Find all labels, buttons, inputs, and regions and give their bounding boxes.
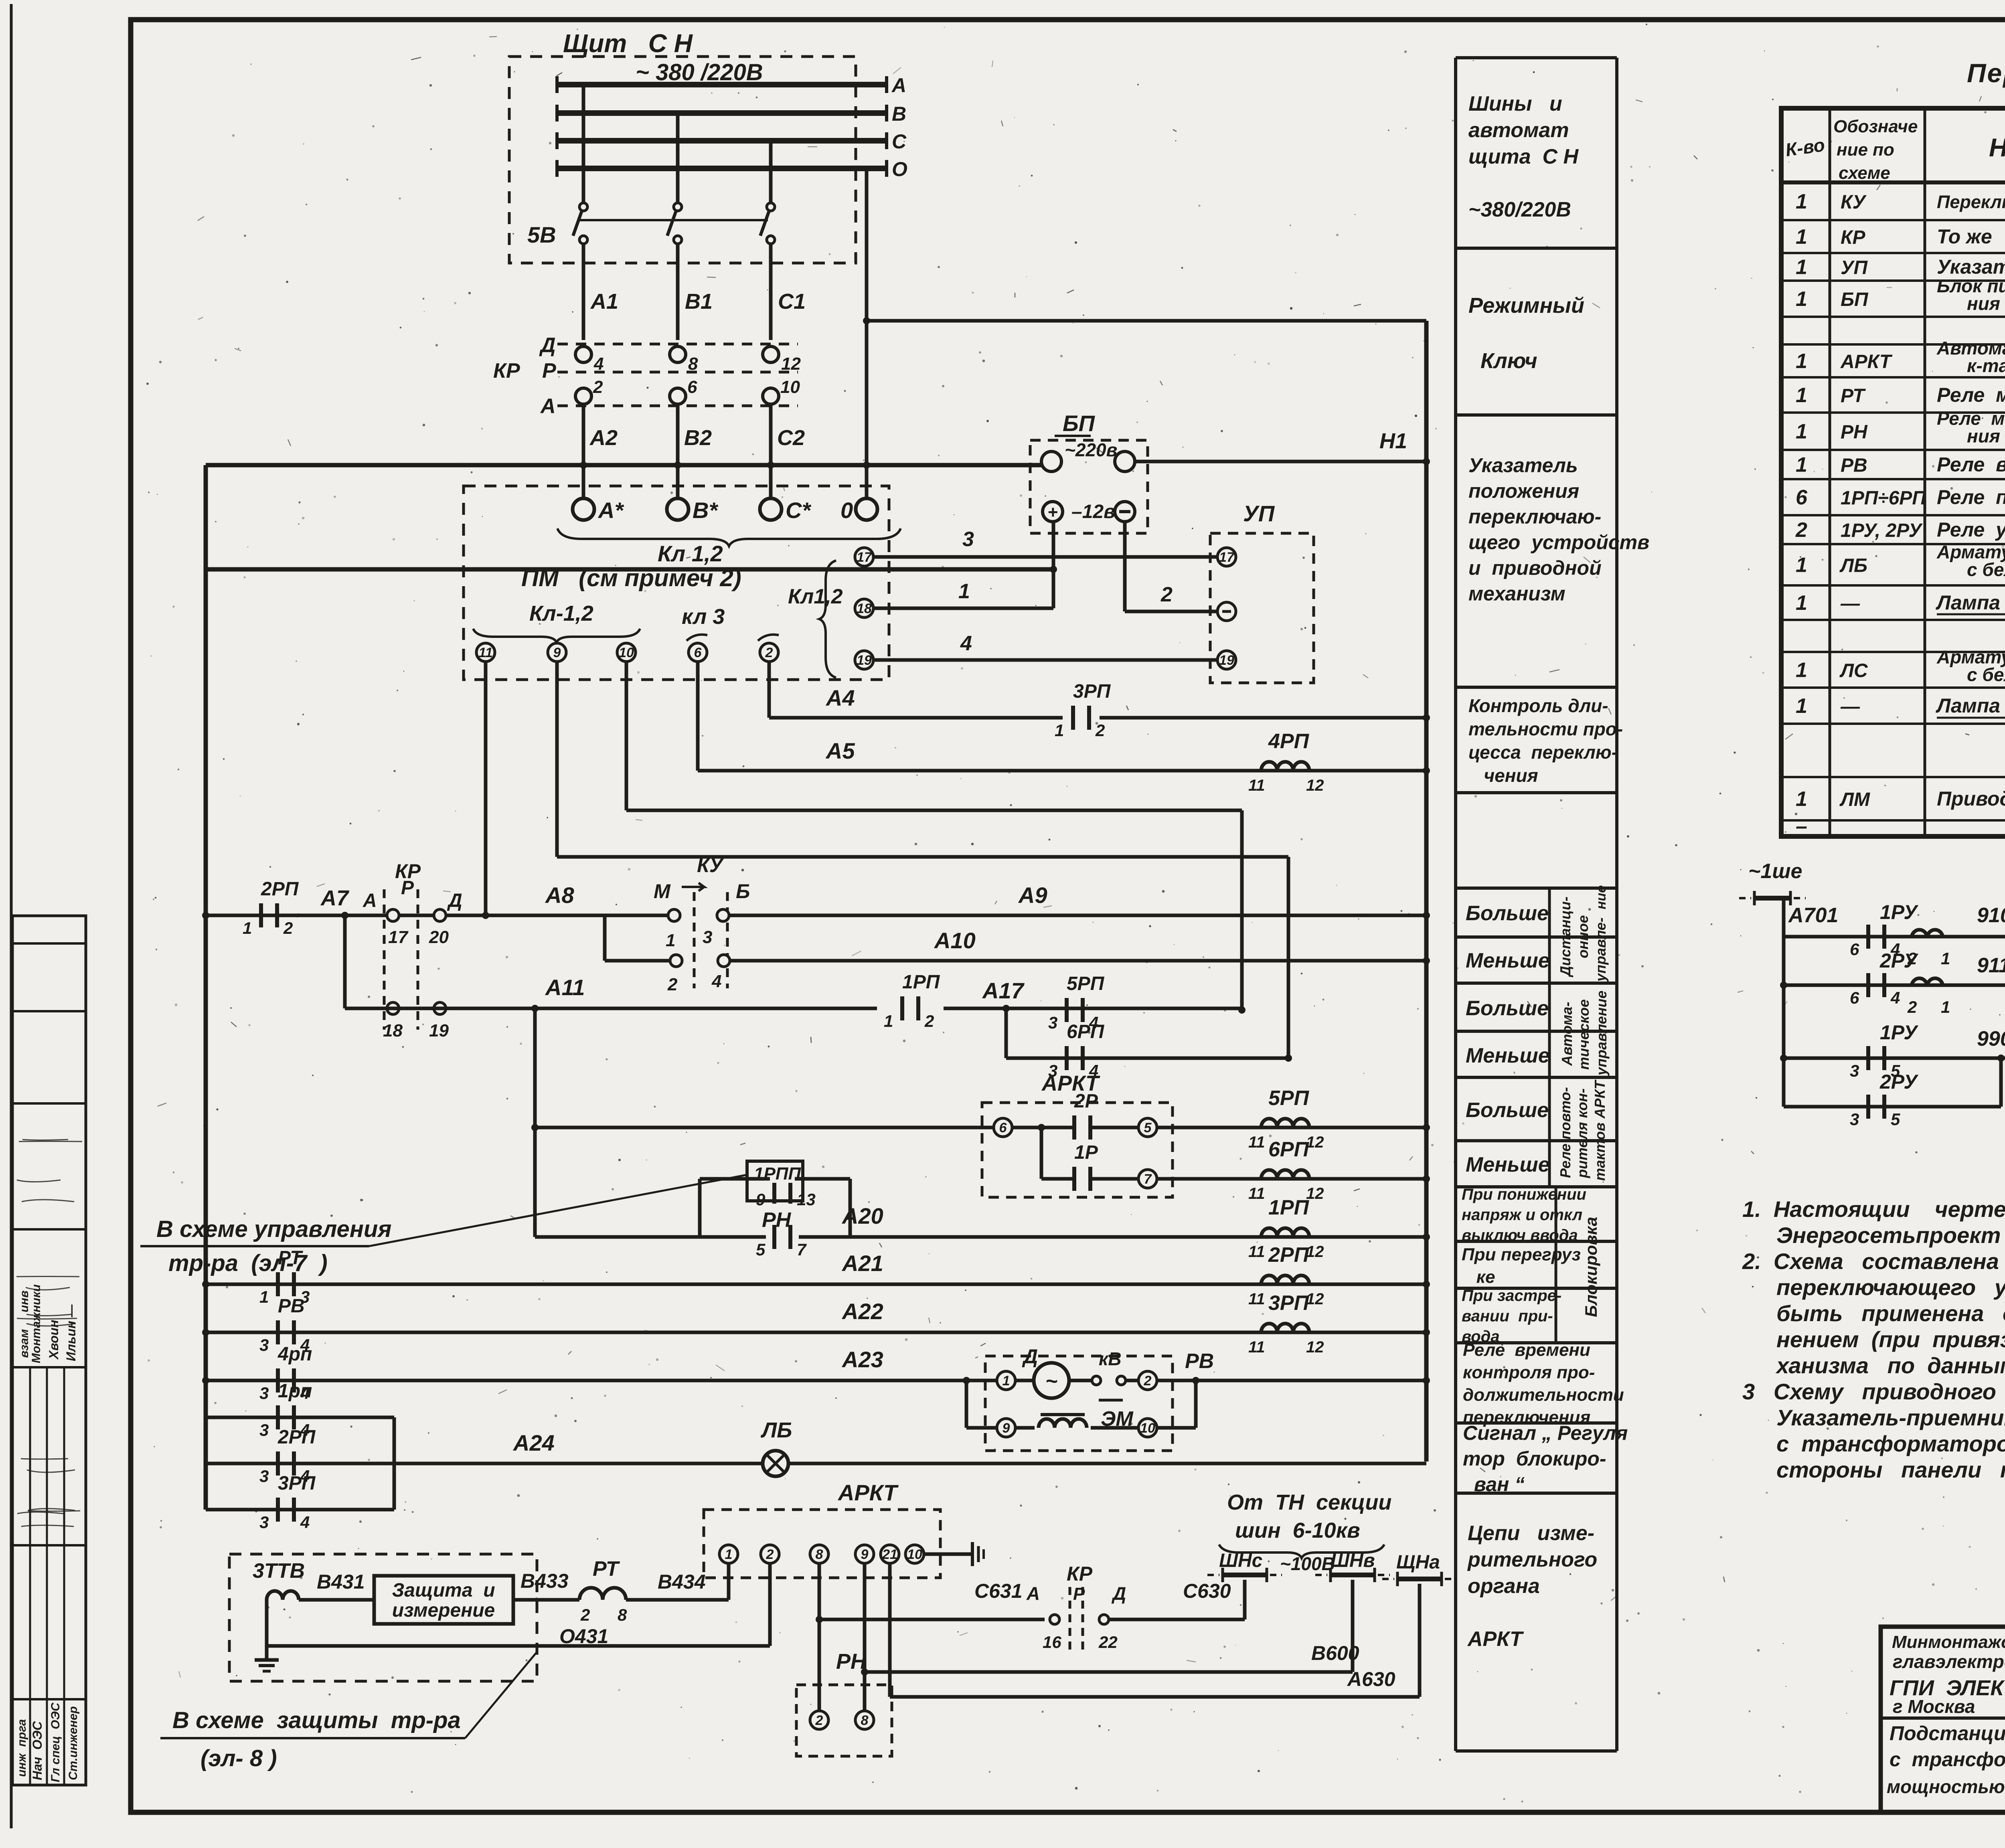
- terminal Д 9: [966, 1426, 997, 1430]
- svg-text:С2: С2: [777, 426, 805, 450]
- breaker 5В pole 2: [674, 203, 682, 211]
- svg-text:10: 10: [907, 1547, 922, 1562]
- svg-text:А10: А10: [934, 928, 976, 953]
- wire А7 to А11 drop: [343, 915, 347, 1008]
- svg-text:11: 11: [1248, 1290, 1265, 1308]
- contact КУ 4: [718, 955, 730, 967]
- svg-text:А23: А23: [841, 1347, 883, 1372]
- svg-text:выключ ввода: выключ ввода: [1462, 1227, 1578, 1244]
- svg-text:главэлектромонтаж: главэлектромонтаж: [1893, 1651, 2005, 1672]
- svg-text:КУ: КУ: [697, 854, 725, 876]
- svg-text:управле-: управле-: [1592, 917, 1609, 982]
- contact 6РП: [1065, 1046, 1069, 1070]
- svg-text:Шины и: Шины и: [1468, 92, 1562, 115]
- contact 3рп: [276, 1498, 280, 1522]
- svg-text:12: 12: [1306, 777, 1324, 794]
- contact 2РУ 6-4: [1866, 973, 1870, 997]
- svg-text:Меньше: Меньше: [1466, 1044, 1550, 1067]
- svg-text:Ильин —: Ильин —: [64, 1304, 78, 1361]
- wire В431: [299, 1598, 374, 1602]
- coil 2РУ: [1912, 978, 1943, 985]
- svg-text:3РП: 3РП: [1073, 681, 1111, 702]
- svg-text:цесса переклю-: цесса переклю-: [1468, 742, 1618, 763]
- line А4: [1100, 716, 1426, 720]
- svg-text:2: 2: [1144, 1373, 1152, 1389]
- wire below breaker pole 1: [582, 244, 585, 340]
- svg-text:2: 2: [593, 377, 603, 397]
- svg-text:12: 12: [1306, 1338, 1324, 1356]
- svg-text:2: 2: [283, 919, 293, 937]
- svg-text:ке: ке: [1462, 1267, 1495, 1287]
- svg-text:КУ: КУ: [1841, 192, 1867, 213]
- svg-text:положения: положения: [1468, 480, 1579, 502]
- svg-text:1РП: 1РП: [1268, 1196, 1310, 1219]
- wire А630: [888, 1563, 892, 1697]
- leg right ЭМ: [1157, 1426, 1196, 1430]
- svg-text:18: 18: [857, 601, 872, 616]
- dashed row Д: [557, 343, 798, 346]
- terminal 19: [855, 651, 873, 669]
- svg-text:РН: РН: [762, 1208, 792, 1232]
- contact Д circle 12: [763, 346, 779, 362]
- terminal plus: [1043, 502, 1063, 522]
- contact КР 19: [434, 1002, 446, 1014]
- svg-text:РВ: РВ: [1185, 1350, 1214, 1373]
- svg-text:3ТТВ: 3ТТВ: [253, 1559, 305, 1583]
- svg-text:А: А: [363, 890, 377, 911]
- svg-text:С631: С631: [974, 1580, 1023, 1602]
- svg-text:2. Схема составлена для: 2. Схема составлена для приводного механ…: [1742, 1249, 2005, 1274]
- line А7-А8-А9: [206, 914, 669, 917]
- svg-text:Д: Д: [539, 334, 556, 357]
- svg-text:2РУ: 2РУ: [1879, 949, 1919, 972]
- terminal 2: [760, 643, 778, 662]
- terminal УП 17: [1217, 548, 1236, 566]
- svg-text:910: 910: [1977, 904, 2005, 927]
- svg-text:2: 2: [580, 1605, 590, 1624]
- line 1рп: [206, 1416, 394, 1419]
- svg-text:Дистанци-: Дистанци-: [1557, 897, 1574, 978]
- svg-text:А17: А17: [982, 978, 1025, 1003]
- svg-text:5: 5: [1144, 1120, 1152, 1136]
- svg-text:КР: КР: [1841, 227, 1866, 248]
- contact КУ 2: [670, 955, 682, 967]
- terminal Д 10: [1138, 1419, 1157, 1437]
- wire А2 to ПМ: [582, 465, 585, 498]
- svg-text:Больше: Больше: [1466, 997, 1549, 1020]
- svg-text:1. Настоящии чертеж выпол: 1. Настоящии чертеж выполнен на основани…: [1742, 1196, 2005, 1222]
- svg-text:А: А: [891, 74, 906, 97]
- wire А11 branch down: [533, 1008, 537, 1237]
- wire from terminal 11: [484, 662, 488, 915]
- svg-text:А5: А5: [825, 738, 855, 763]
- svg-text:1РП÷6РП: 1РП÷6РП: [1841, 488, 1926, 509]
- contact Д circle 8: [670, 346, 686, 362]
- wire 1: [873, 607, 1053, 610]
- svg-text:ния: ния: [1967, 426, 2000, 447]
- svg-text:с белой линзой: с белой линзой: [1967, 559, 2005, 580]
- svg-text:3: 3: [1850, 1061, 1859, 1080]
- wire to 6РП branch: [1005, 1008, 1008, 1058]
- svg-text:А630: А630: [1347, 1668, 1395, 1690]
- contact КР 17: [387, 909, 399, 921]
- line 6РП coil: [1157, 1177, 1426, 1181]
- wire РВ out: [1157, 1379, 1426, 1382]
- line А21: [206, 1283, 1426, 1286]
- svg-text:22: 22: [1098, 1633, 1118, 1652]
- svg-text:А22: А22: [841, 1299, 883, 1324]
- revision stamp table: [12, 916, 86, 1785]
- left trim line: [10, 4, 13, 1828]
- svg-text:А11: А11: [545, 975, 585, 1000]
- contact 2Р: [1012, 1126, 1073, 1129]
- terminal АРКТ 10: [905, 1545, 924, 1563]
- terminal АРКТ 8: [810, 1545, 828, 1563]
- wire В600: [863, 1563, 867, 1720]
- line А17: [944, 1007, 1242, 1010]
- svg-text:РН: РН: [836, 1650, 867, 1674]
- svg-text:6РП: 6РП: [1268, 1138, 1310, 1161]
- svg-text:2: 2: [766, 1547, 774, 1562]
- svg-text:Режимный: Режимный: [1468, 293, 1584, 318]
- terminal АРКТ 5: [1138, 1118, 1157, 1137]
- wire below breaker pole 2: [676, 244, 680, 340]
- svg-text:Хвоин: Хвоин: [47, 1320, 61, 1360]
- wire С2 to ПМ: [769, 465, 773, 498]
- svg-text:Лампа сигнальная: Лампа сигнальная: [1936, 694, 2005, 717]
- terminal АРКТ 6: [994, 1118, 1012, 1137]
- svg-text:переключаю-: переключаю-: [1468, 506, 1601, 528]
- svg-text:2: 2: [1907, 998, 1917, 1016]
- svg-text:с трансформаторами: с трансформаторами: [1890, 1748, 2005, 1771]
- svg-text:2РП: 2РП: [261, 878, 299, 900]
- svg-text:1: 1: [1796, 787, 1807, 811]
- svg-text:С1: С1: [778, 289, 806, 314]
- svg-text:тактов АРКТ: тактов АРКТ: [1592, 1079, 1608, 1181]
- svg-text:11: 11: [1248, 1133, 1265, 1151]
- svg-text:10: 10: [780, 377, 800, 397]
- svg-text:вании при-: вании при-: [1462, 1308, 1553, 1325]
- svg-text:Минмонтажспецстрои ссср: Минмонтажспецстрои ссср: [1892, 1632, 2005, 1652]
- svg-text:3: 3: [1850, 1110, 1859, 1129]
- contact КР 18: [387, 1002, 399, 1014]
- svg-text:4: 4: [1890, 988, 1900, 1007]
- svg-text:ЛБ: ЛБ: [760, 1418, 792, 1442]
- terminal 6: [689, 643, 707, 662]
- contact 2РП on А7: [259, 903, 263, 927]
- svg-text:схеме: схеме: [1839, 163, 1890, 183]
- terminal Д 1: [997, 1371, 1015, 1390]
- table underline lamps: [1937, 613, 2005, 615]
- svg-text:Переключатель малогабаритный: Переключатель малогабаритный: [1937, 192, 2005, 212]
- svg-text:А701: А701: [1788, 904, 1838, 927]
- terminal АРКТ 1: [719, 1545, 738, 1563]
- svg-text:При перегруз: При перегруз: [1462, 1245, 1581, 1264]
- svg-text:9: 9: [861, 1547, 869, 1562]
- legend column: [1454, 58, 1457, 1751]
- terminal О: [856, 498, 877, 520]
- svg-text:управление: управление: [1593, 991, 1610, 1076]
- wire 220 right: [1135, 460, 1148, 464]
- svg-text:ние по: ние по: [1837, 140, 1894, 160]
- wire H1: [1148, 460, 1426, 464]
- svg-text:Монтажники: Монтажники: [30, 1284, 43, 1363]
- svg-text:21: 21: [882, 1547, 897, 1562]
- svg-text:(эл- 8 ): (эл- 8 ): [200, 1745, 277, 1771]
- svg-text:1: 1: [725, 1547, 733, 1562]
- svg-text:щего устройств: щего устройств: [1468, 531, 1649, 554]
- svg-text:В600: В600: [1311, 1642, 1359, 1664]
- svg-text:Ключ: Ключ: [1468, 349, 1537, 373]
- bus C: [557, 138, 887, 144]
- contact Р circle 2: [575, 388, 591, 404]
- terminal 11: [476, 643, 495, 662]
- svg-text:переключающего устройства: переключающего устройства типа РС-3-400 …: [1776, 1275, 2005, 1300]
- svg-text:18: 18: [383, 1021, 403, 1040]
- svg-text:1: 1: [1055, 721, 1064, 740]
- svg-text:1: 1: [666, 931, 675, 950]
- wire phase drop 1: [582, 85, 585, 202]
- svg-text:инж прга: инж прга: [15, 1719, 28, 1781]
- svg-text:Указатель-приемник и блок: Указатель-приемник и блок питания постав…: [1776, 1405, 2005, 1430]
- device АРКТ bottom dashed box: [704, 1510, 940, 1578]
- callout line 2: [465, 1652, 537, 1738]
- terminal УП 19: [1217, 651, 1236, 669]
- svg-text:В2: В2: [684, 426, 712, 450]
- svg-text:11: 11: [1248, 1243, 1265, 1261]
- svg-text:В схеме управления: В схеме управления: [156, 1216, 391, 1242]
- svg-text:А8: А8: [545, 883, 574, 908]
- svg-text:ЩНа: ЩНа: [1396, 1552, 1440, 1573]
- svg-text:Энергосетьпроект N 1892ТМ-Т: Энергосетьпроект N 1892ТМ-Т1-24: [1776, 1223, 2005, 1248]
- parallel legs: [204, 1417, 208, 1510]
- svg-text:ЛМ: ЛМ: [1839, 789, 1870, 810]
- contact КР 20: [434, 909, 446, 921]
- line 910: [1784, 935, 2005, 939]
- svg-text:2РП: 2РП: [1268, 1243, 1310, 1267]
- left collector wire: [204, 465, 208, 1510]
- wire from terminal 6 to А5: [696, 662, 700, 771]
- svg-text:3: 3: [259, 1421, 269, 1439]
- device АРКТ dashed box: [982, 1103, 1173, 1197]
- svg-text:к-та трансформации: к-та трансформации: [1967, 355, 2005, 376]
- coil 5РП: [1261, 1119, 1309, 1127]
- svg-text:Указатель - приемник: Указатель - приемник: [1937, 256, 2005, 278]
- wire to АРКТ 6: [535, 1126, 994, 1129]
- coil 6РП: [1261, 1170, 1309, 1179]
- svg-text:мощностью от 6,3: мощностью от 6,3: [1887, 1776, 2005, 1797]
- stamp handwriting: [22, 1140, 68, 1140]
- svg-text:6: 6: [687, 377, 697, 397]
- device ПМ dashed box: [464, 486, 889, 680]
- svg-text:Перечень аппаратуры: Перечень аппаратуры: [1967, 58, 2005, 88]
- svg-text:1: 1: [1796, 694, 1807, 718]
- svg-text:3: 3: [259, 1336, 269, 1354]
- svg-text:~1ше: ~1ше: [1748, 860, 1802, 883]
- svg-text:А1: А1: [590, 289, 618, 314]
- svg-text:с трансформатором Блок пи: с трансформатором Блок питания устанавли…: [1776, 1431, 2005, 1456]
- line А24: [394, 1462, 1426, 1465]
- svg-text:13: 13: [797, 1190, 816, 1209]
- wire 220V feed: [206, 463, 1042, 468]
- svg-text:~100В: ~100В: [1280, 1553, 1335, 1574]
- coil 4РП on А5: [1261, 762, 1309, 771]
- svg-text:С630: С630: [1183, 1580, 1231, 1602]
- svg-text:механизм: механизм: [1468, 583, 1566, 605]
- svg-text:1РУ: 1РУ: [1880, 901, 1919, 923]
- svg-text:То же: То же: [1937, 225, 1992, 248]
- terminal minus: [1115, 502, 1135, 522]
- svg-text:7: 7: [1144, 1172, 1152, 1187]
- coil 1РУ: [1912, 930, 1943, 937]
- svg-text:А4: А4: [825, 685, 855, 710]
- svg-text:1рп: 1рп: [278, 1380, 312, 1402]
- svg-text:РВ: РВ: [278, 1295, 305, 1317]
- svg-text:1: 1: [1796, 384, 1807, 407]
- svg-text:А20: А20: [841, 1203, 883, 1229]
- svg-text:тельности про-: тельности про-: [1468, 719, 1623, 739]
- terminal 17: [855, 548, 873, 566]
- svg-text:Р: Р: [401, 877, 414, 899]
- wire О431: [267, 1644, 770, 1648]
- svg-text:19: 19: [857, 653, 872, 668]
- svg-text:6: 6: [999, 1120, 1007, 1136]
- svg-text:1РУ: 1РУ: [1880, 1021, 1919, 1044]
- svg-text:ханизма по данным завода: ханизма по данным завода изготовителя .: [1775, 1353, 2005, 1378]
- bus O: [557, 166, 887, 171]
- terminal УП minus: [1217, 602, 1236, 621]
- svg-text:17: 17: [1219, 550, 1235, 565]
- svg-text:РН: РН: [1841, 422, 1868, 443]
- svg-text:А9: А9: [1018, 883, 1047, 908]
- svg-text:ЛС: ЛС: [1839, 660, 1868, 682]
- svg-text:Подстанции 110/6-10кв: Подстанции 110/6-10кв: [1890, 1722, 2005, 1745]
- svg-text:6: 6: [1850, 940, 1859, 959]
- wire from terminal 10: [625, 662, 628, 810]
- svg-text:щита С Н: щита С Н: [1468, 145, 1579, 168]
- svg-text:ния: ния: [1967, 293, 2000, 314]
- terminal В*: [667, 498, 689, 520]
- svg-text:2: 2: [667, 975, 678, 994]
- callout line: [369, 1175, 747, 1246]
- svg-text:1РП: 1РП: [902, 972, 940, 993]
- legend sub divider: [1548, 888, 1551, 1187]
- svg-text:В434: В434: [658, 1571, 706, 1593]
- svg-text:3: 3: [1048, 1013, 1057, 1032]
- title block: [1881, 1627, 2005, 1812]
- svg-text:3РП: 3РП: [1268, 1291, 1310, 1315]
- contact КВ: [1069, 1379, 1092, 1382]
- svg-text:~380/220В: ~380/220В: [1468, 198, 1571, 221]
- svg-text:автомат: автомат: [1468, 119, 1569, 142]
- CT 3ТТВ: [267, 1591, 299, 1600]
- svg-text:кВ: кВ: [1099, 1348, 1122, 1369]
- terminal 18: [855, 599, 873, 617]
- contact 1РП on А11: [900, 996, 904, 1020]
- contact 1рп: [276, 1405, 280, 1429]
- coil 2РП: [1261, 1275, 1309, 1284]
- svg-text:1: 1: [243, 919, 252, 937]
- svg-text:В: В: [892, 103, 906, 125]
- line 990: [1784, 1057, 2001, 1060]
- svg-text:должительности: должительности: [1463, 1385, 1624, 1405]
- svg-text:А*: А*: [597, 498, 624, 523]
- svg-text:1: 1: [1796, 256, 1807, 279]
- svg-text:11: 11: [1248, 777, 1265, 794]
- svg-text:Контроль дли-: Контроль дли-: [1468, 695, 1608, 716]
- wire O to H1 branch: [867, 319, 1426, 323]
- svg-text:1: 1: [1796, 350, 1807, 373]
- svg-text:Нач ОЭС: Нач ОЭС: [30, 1721, 45, 1780]
- brace Кл 1,2: [557, 528, 901, 546]
- signal left collector: [1782, 898, 1786, 1107]
- svg-text:5РП: 5РП: [1268, 1087, 1310, 1110]
- svg-text:А2: А2: [589, 426, 618, 450]
- svg-text:11: 11: [1248, 1338, 1265, 1356]
- svg-text:С*: С*: [786, 498, 811, 523]
- svg-text:С: С: [892, 130, 907, 153]
- step to А10: [603, 915, 607, 961]
- svg-text:10: 10: [1140, 1421, 1155, 1436]
- svg-text:УП: УП: [1243, 501, 1275, 526]
- bus B: [557, 110, 887, 116]
- svg-text:рителя кон-: рителя кон-: [1574, 1088, 1590, 1178]
- svg-text:Цепи изме-: Цепи изме-: [1468, 1522, 1594, 1545]
- terminal ШНв: [1331, 1573, 1375, 1577]
- svg-text:16: 16: [1043, 1633, 1061, 1652]
- svg-text:3: 3: [259, 1384, 269, 1403]
- contact РТ: [276, 1272, 280, 1296]
- svg-text:контроля про-: контроля про-: [1463, 1362, 1595, 1382]
- svg-text:тическое: тическое: [1576, 999, 1592, 1070]
- wire down to А20: [535, 1235, 700, 1239]
- bus A: [557, 82, 887, 87]
- svg-text:Автома-: Автома-: [1559, 1002, 1575, 1066]
- svg-text:6: 6: [694, 645, 702, 660]
- svg-text:ЛБ: ЛБ: [1839, 555, 1867, 577]
- svg-text:1: 1: [1941, 998, 1950, 1016]
- wire below breaker pole 3: [769, 244, 773, 340]
- svg-text:1: 1: [1796, 190, 1807, 213]
- right collector wire: [1424, 321, 1429, 1461]
- ground АРКТ: [960, 1552, 972, 1556]
- dashed row А: [557, 405, 798, 407]
- svg-text:АРКТ: АРКТ: [1467, 1627, 1524, 1651]
- svg-text:Кл 1,2: Кл 1,2: [658, 541, 723, 566]
- breaker 5В pole 3: [767, 203, 775, 211]
- svg-text:7: 7: [797, 1240, 807, 1259]
- wire phase drop 3: [769, 141, 773, 202]
- svg-text:3 Схему приводного меха: 3 Схему приводного механизма типа М3-2 с…: [1742, 1379, 2005, 1404]
- wire С631: [818, 1563, 821, 1720]
- svg-text:Д: Д: [1022, 1345, 1038, 1368]
- device УП dashed box: [1210, 533, 1314, 683]
- svg-text:Больше: Больше: [1466, 902, 1549, 925]
- dashed row Р: [557, 371, 798, 374]
- svg-text:Д: Д: [447, 890, 462, 911]
- svg-text:—: —: [1840, 696, 1860, 717]
- line 2рп А24: [206, 1462, 394, 1465]
- contact 4рп: [276, 1368, 280, 1393]
- svg-text:Кл-1,2: Кл-1,2: [529, 601, 593, 625]
- svg-text:5РП: 5РП: [1067, 973, 1105, 994]
- svg-text:6РП: 6РП: [1067, 1021, 1105, 1042]
- wire 1Р branch: [1040, 1127, 1043, 1179]
- line 6РП branch: [1006, 1057, 1288, 1060]
- svg-text:Сигнал „ Регуля: Сигнал „ Регуля: [1463, 1422, 1628, 1444]
- svg-text:В схеме защиты тр-ра: В схеме защиты тр-ра: [172, 1707, 461, 1733]
- svg-text:Меньше: Меньше: [1466, 1153, 1550, 1176]
